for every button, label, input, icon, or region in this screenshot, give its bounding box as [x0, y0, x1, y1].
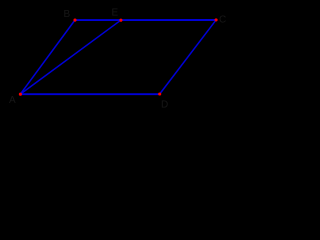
side DA (bottom side) — [20, 93, 159, 95]
point E — [119, 19, 122, 22]
svg-text:B: B — [64, 9, 71, 20]
point C — [215, 18, 218, 21]
svg-text:A: A — [9, 95, 16, 106]
svg-text:D: D — [161, 100, 168, 111]
point B — [73, 19, 76, 22]
point D — [158, 92, 161, 95]
svg-text:C: C — [219, 15, 226, 26]
point A — [19, 93, 22, 96]
svg-text:E: E — [112, 8, 119, 19]
side BC (top side) — [75, 19, 216, 21]
segment AE (cevian) — [20, 20, 120, 94]
side AB (left side of parallelogram) — [20, 20, 75, 94]
side CD (right side) — [160, 20, 216, 94]
